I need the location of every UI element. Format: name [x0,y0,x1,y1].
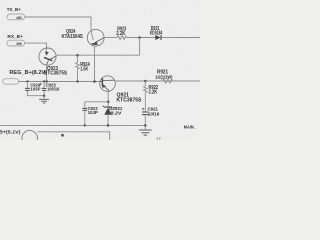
wire Q924 emitter down to Q921 base [94,46,96,82]
wire caps merge [27,96,44,100]
wire RX_B+ to Q923 base [25,43,47,48]
transistor Q921 [100,76,142,104]
wire TX_B+ to Q924 [25,17,91,31]
ground under C921 [139,130,152,135]
transistor Q923 [39,48,68,77]
svg-text:2.2K: 2.2K [116,31,126,37]
node R924 bottom joint [76,80,78,82]
svg-text:103P: 103P [30,87,40,92]
wire ground rail bottom [0,124,145,126]
capacitor C922 [82,102,98,126]
wire D921 to right edge [162,37,201,39]
diode D921 [150,26,163,40]
zener diode DZ921 [103,106,123,126]
node R924 top [76,54,79,57]
wire REG rail [19,81,100,83]
node Q921 base joint [93,80,96,83]
ground under C923 [39,99,49,103]
capacitor C921 [142,106,160,125]
connector REG_B+ [3,70,48,84]
svg-text:KTC3875S: KTC3875S [117,97,143,103]
svg-text:KTC3875S: KTC3875S [44,71,68,77]
wire R923 to D921 [127,37,156,39]
connector TX_B+ [7,7,25,20]
wire C921 to ground [144,125,146,129]
svg-text:100/16: 100/16 [47,87,59,92]
svg-text:MAIN_: MAIN_ [184,125,196,130]
node C923 tap [43,80,45,82]
wire mid horizontal Q923 collector to junction [56,54,140,56]
resistor R921 [155,70,173,83]
resistor R924 [76,55,90,81]
svg-text:8.2V: 8.2V [111,111,123,116]
transistor Q9xx (cut off at bottom) [22,130,38,146]
wire Q924 collector to R923 [104,37,117,39]
capacitor C924 [25,82,41,96]
svg-text:1Ω(1/2W): 1Ω(1/2W) [155,74,173,79]
svg-text:KDS184: KDS184 [150,31,163,37]
node C924 tap [26,80,28,82]
svg-text:103P: 103P [88,110,98,115]
svg-text:1.5K: 1.5K [80,67,88,73]
svg-text:B+(5.1V): B+(5.1V) [0,130,21,136]
svg-text:RX_B+: RX_B+ [7,34,23,39]
wire bottom to edge [37,132,109,140]
node junction R923/D921 [138,36,141,39]
node DZ921/C922 joint [107,101,110,104]
capacitor C923 [39,82,59,96]
node Q923 emitter joint [45,80,47,82]
svg-text:2.2K: 2.2K [149,89,158,95]
wire to C922 [85,101,108,103]
node on bottom wire [61,134,64,137]
wire Q923 emitter down [46,65,48,81]
node R922 tap [144,80,147,83]
svg-text:TX_B+: TX_B+ [7,7,22,12]
resistor R923 [116,27,126,40]
svg-text:KTA1504S: KTA1504S [62,34,84,40]
wire Q921 collector line [115,80,200,82]
connector RX_B+ [7,34,25,46]
svg-text:10/16: 10/16 [148,111,160,116]
cut-off part bottom right [156,137,158,140]
resistor R922 [144,81,159,112]
svg-text:REG_B+(8.2V): REG_B+(8.2V) [9,70,47,76]
svg-text:40: 40 [16,15,22,20]
transistor Q924 [62,29,105,46]
wire Q921 emitter down [107,91,109,106]
wire junction down to mid node [139,38,141,56]
